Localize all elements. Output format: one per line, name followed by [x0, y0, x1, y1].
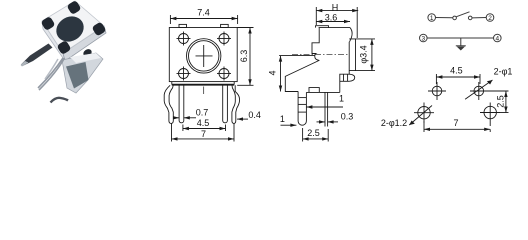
- switch lever: [456, 12, 469, 17]
- svg-text:0.4: 0.4: [248, 110, 261, 120]
- svg-text:1: 1: [339, 94, 344, 104]
- svg-text:3: 3: [421, 36, 425, 43]
- svg-text:2: 2: [488, 15, 492, 22]
- switch top face: [42, 1, 104, 53]
- hole bottom-left: [414, 103, 434, 124]
- svg-text:1: 1: [280, 114, 285, 124]
- top bump left: [179, 24, 187, 27]
- top bump right: [221, 24, 229, 27]
- pin 1 terminal: [428, 14, 436, 22]
- wire pin3 to pin4: [427, 37, 493, 39]
- dim 4.5 bottom: [183, 125, 226, 132]
- inner pin right: [223, 85, 228, 123]
- svg-text:2-φ1.2: 2-φ1.2: [381, 118, 407, 128]
- svg-text:φ3.4: φ3.4: [359, 45, 369, 63]
- center line dashed: [292, 53, 350, 55]
- contact left: [453, 16, 457, 20]
- pin 3 terminal: [420, 34, 428, 42]
- svg-text:6.3: 6.3: [239, 50, 249, 63]
- svg-text:7: 7: [453, 118, 458, 128]
- svg-text:4.5: 4.5: [197, 118, 210, 128]
- ground bar: [456, 45, 466, 47]
- pin 2 terminal: [486, 14, 494, 22]
- body left side face: [42, 21, 65, 61]
- svg-text:0.7: 0.7: [196, 108, 209, 118]
- leader 2-phi1: [465, 80, 492, 99]
- bracket diagonal: [285, 60, 319, 91]
- ground stem: [460, 38, 462, 46]
- hole top-left: [428, 82, 446, 100]
- dim 7.4: [170, 15, 237, 24]
- leader 2-phi1.2: [409, 106, 432, 126]
- dim H: [316, 7, 358, 38]
- dim 0.4: [237, 117, 248, 120]
- corner post front: [56, 40, 71, 55]
- side contact nub: [82, 48, 93, 59]
- front pin: [298, 92, 306, 126]
- dim phi3.4: [356, 39, 376, 71]
- corner circle TR: [217, 32, 231, 46]
- bottom notch and base: [309, 88, 319, 93]
- wire pin1 to contact: [436, 17, 453, 19]
- corner circle TL: [177, 32, 191, 46]
- outer leg left: [164, 85, 173, 123]
- corner circle BR: [217, 67, 231, 81]
- svg-text:2.5: 2.5: [307, 128, 320, 138]
- corner post right: [91, 21, 106, 36]
- dim 6.3: [237, 28, 253, 86]
- bracket top edge: [279, 55, 315, 57]
- svg-text:4: 4: [268, 70, 278, 75]
- dim 1 (foot): [281, 124, 297, 127]
- corner post top: [66, 0, 81, 15]
- bracket plate: [62, 53, 103, 93]
- button: [52, 12, 89, 47]
- left pin: [21, 44, 53, 67]
- body right side face: [63, 26, 106, 61]
- body back profile: [312, 28, 319, 61]
- dim 7: [424, 121, 490, 132]
- hole bottom-right: [480, 103, 500, 127]
- rear foot curl: [340, 74, 349, 92]
- leg curl tip: [51, 98, 69, 103]
- contact right: [468, 16, 472, 20]
- svg-text:3.6: 3.6: [325, 13, 338, 23]
- wire contact to pin 2: [472, 17, 486, 19]
- rear pin: [325, 92, 328, 126]
- pin 4 terminal: [494, 34, 502, 42]
- bracket highlight: [70, 53, 101, 63]
- button side: [349, 39, 355, 71]
- corner post left: [40, 16, 55, 31]
- bottom flange: [172, 82, 234, 85]
- corner circle BL: [177, 67, 191, 81]
- svg-text:2.5: 2.5: [496, 95, 506, 108]
- svg-text:0.3: 0.3: [341, 112, 354, 122]
- bracket shadow: [66, 62, 89, 89]
- svg-text:7.4: 7.4: [197, 8, 210, 18]
- ground triangle: [457, 47, 465, 51]
- inner pin left: [179, 85, 184, 123]
- dim 2.5: [303, 128, 329, 142]
- svg-text:2-φ1: 2-φ1: [494, 67, 513, 77]
- top bump: [316, 26, 329, 28]
- body front face: [348, 42, 350, 75]
- center button circle: [187, 39, 221, 73]
- body square: [169, 28, 237, 82]
- svg-text:1: 1: [430, 15, 434, 22]
- dim 2.5: [483, 91, 509, 113]
- body top edge: [319, 27, 350, 29]
- dim 0.3: [317, 120, 339, 123]
- leg back thin: [45, 59, 58, 79]
- dim 4.5: [436, 74, 480, 84]
- svg-text:4: 4: [495, 36, 499, 43]
- dim 7 bottom: [172, 123, 235, 142]
- front pin crimps: [298, 97, 306, 99]
- dim 3.6: [316, 20, 350, 23]
- centerline below body: [203, 87, 205, 95]
- dim 0.7: [173, 116, 196, 119]
- leg front thin: [38, 58, 65, 90]
- dim 1 (pin width): [306, 105, 343, 108]
- left pin tip: [21, 61, 29, 67]
- top-right corner arc: [350, 28, 353, 42]
- svg-text:H: H: [332, 3, 339, 13]
- hole top-right: [470, 82, 488, 100]
- dim 4: [279, 56, 282, 92]
- svg-text:4.5: 4.5: [450, 66, 463, 76]
- outer leg right: [232, 85, 240, 123]
- svg-text:7: 7: [201, 129, 206, 139]
